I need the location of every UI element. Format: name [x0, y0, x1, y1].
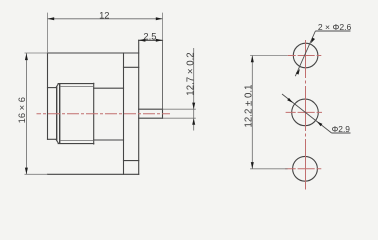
barrel top edge	[94, 87, 124, 89]
flange top edge	[139, 39, 163, 41]
vertical centerline through holes	[305, 40, 307, 190]
thin extension lines	[25, 13, 196, 175]
body left edge	[47, 53, 49, 139]
svg-text:2 × Φ2.6: 2 × Φ2.6	[318, 22, 352, 32]
side view: connector body outline	[48, 40, 163, 174]
hex chamfer top	[56, 84, 58, 88]
svg-text:16 × 6: 16 × 6	[16, 97, 27, 123]
svg-text:12: 12	[99, 9, 109, 20]
dimension 12.2+-0.1	[244, 56, 288, 169]
dimension 12.7x0.2	[185, 48, 196, 131]
svg-text:12.2 ± 0.1: 12.2 ± 0.1	[244, 84, 255, 127]
horizontal centerline top hole	[288, 55, 322, 57]
hex bottom edge	[58, 143, 93, 145]
body bottom edge	[48, 173, 139, 175]
body/neck separation line	[123, 53, 125, 174]
hex chamfer bottom	[56, 139, 58, 143]
horizontal centerline bottom hole	[285, 168, 321, 170]
ext: pin top to right	[163, 108, 196, 110]
dimension 2.5	[139, 31, 163, 42]
centerline left view	[37, 113, 171, 115]
flange right edge	[162, 40, 164, 118]
ext: body top left to dim 16x6	[25, 52, 48, 54]
hole top circle	[293, 43, 318, 68]
svg-text:12.7 × 0.2: 12.7 × 0.2	[185, 52, 196, 95]
leader Phi2.9	[282, 94, 351, 134]
cap top edge	[48, 87, 57, 89]
svg-text:Φ2.9: Φ2.9	[332, 124, 351, 134]
horizontal centerline middle hole	[286, 111, 322, 113]
leader 2xPhi2.6	[295, 22, 351, 76]
hex right edge	[93, 83, 95, 144]
neck top edge	[124, 66, 139, 68]
ext: pin bottom to right	[163, 117, 196, 119]
dimension 12	[48, 9, 163, 20]
pin top edge	[139, 108, 163, 110]
hole middle circle	[292, 99, 319, 126]
barrel bottom edge	[94, 139, 124, 141]
hex facet lines	[60, 87, 94, 141]
hole bottom circle	[293, 156, 318, 181]
ext: body bottom left to dim 16x6	[25, 173, 48, 175]
neck bottom edge	[124, 160, 139, 162]
hex left face	[56, 87, 58, 140]
body top edge	[48, 52, 139, 54]
svg-text:2.5: 2.5	[143, 31, 156, 42]
pin bottom edge	[139, 117, 163, 119]
flange left edge	[138, 40, 140, 174]
dimension 16x6	[16, 53, 28, 174]
cap bottom edge	[48, 138, 57, 140]
hex left facet edge	[59, 84, 61, 143]
hex top edge	[58, 83, 93, 85]
ext: flange right up to dim 12	[162, 13, 164, 41]
ext: body left up to dim 12	[47, 13, 49, 53]
pin right end edge	[162, 109, 164, 118]
